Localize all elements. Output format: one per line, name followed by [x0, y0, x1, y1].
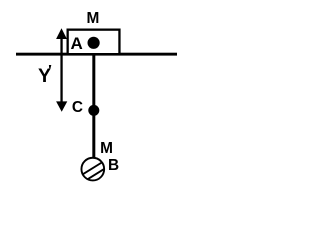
arrowhead up: [56, 28, 67, 39]
svg-text:M: M: [86, 10, 99, 27]
svg-text:A: A: [70, 34, 82, 53]
label prime: [49, 65, 51, 68]
svg-text:M: M: [100, 140, 113, 157]
ball B circle: [81, 158, 104, 181]
ball hatch line 1: [80, 160, 106, 176]
table line: [16, 53, 177, 56]
svg-text:Y: Y: [38, 65, 51, 87]
displacement arrow Y' shaft: [60, 36, 62, 104]
ball hatch line 2: [85, 167, 109, 182]
node A dot: [88, 37, 100, 49]
arrowhead down: [56, 101, 67, 111]
string wire below block: [92, 55, 95, 158]
string wire: [92, 42, 95, 158]
svg-text:B: B: [108, 157, 119, 174]
svg-text:C: C: [72, 99, 83, 116]
block M: [68, 30, 120, 55]
node C dot: [88, 105, 99, 116]
